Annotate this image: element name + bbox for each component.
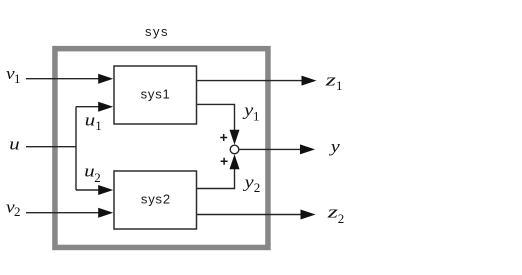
svg-text:u: u: [9, 134, 19, 153]
svg-text:2: 2: [254, 180, 260, 195]
svg-text:1: 1: [253, 109, 260, 124]
svg-text:y: y: [328, 137, 340, 156]
svg-text:z: z: [324, 70, 336, 89]
svg-text:sys2: sys2: [141, 192, 171, 207]
svg-text:1: 1: [95, 118, 102, 133]
svg-text:2: 2: [14, 204, 21, 219]
svg-text:2: 2: [94, 170, 101, 185]
svg-text:z: z: [326, 202, 338, 221]
svg-text:sys1: sys1: [141, 87, 171, 102]
svg-text:1: 1: [14, 71, 21, 86]
svg-text:y: y: [242, 172, 254, 191]
svg-text:2: 2: [338, 211, 345, 226]
svg-text:1: 1: [336, 78, 343, 93]
svg-text:sys: sys: [145, 24, 169, 39]
svg-text:u: u: [84, 162, 94, 181]
svg-text:u: u: [85, 110, 95, 129]
